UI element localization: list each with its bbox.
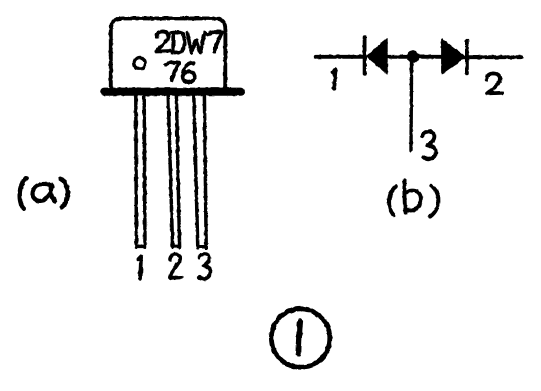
subfigure label (b): right paren xyxy=(430,186,438,217)
wire: terminal 1 to diode D1 cathode xyxy=(316,55,363,59)
pin label 3 xyxy=(199,254,210,279)
pin label 1 xyxy=(139,256,142,278)
pin 1 index dot on package xyxy=(134,58,145,69)
package marking text 2DW7: digit 2 xyxy=(156,31,169,51)
wire: junction down to terminal 3 xyxy=(409,57,413,150)
subfigure label (a): letter a xyxy=(33,184,56,202)
subfigure label (a): left paren xyxy=(20,178,27,209)
subfigure label (b): left paren xyxy=(389,186,396,215)
wire: diode D2 cathode to terminal 2 xyxy=(467,55,521,59)
package marking text 2DW7: letter D xyxy=(172,32,185,52)
diode D1 triangle (pointing left) xyxy=(367,39,388,74)
wire: diode D1 anode to junction xyxy=(386,55,410,59)
diode D2 triangle (pointing right) xyxy=(442,39,466,75)
figure number circle xyxy=(271,309,329,367)
diode D2 cathode bar xyxy=(465,41,469,74)
package mounting flange xyxy=(100,88,245,96)
figure number 1 xyxy=(298,321,300,353)
terminal label 2 xyxy=(487,73,502,93)
subfigure label (a): right paren xyxy=(60,179,68,208)
wire: junction to diode D2 anode xyxy=(416,55,443,59)
diode D1 cathode bar xyxy=(363,37,367,74)
package marking text 76: digit 7 xyxy=(166,62,180,80)
terminal label 1 xyxy=(333,69,336,88)
pin 2 lead xyxy=(168,96,179,248)
terminal label 3 xyxy=(423,131,436,159)
junction dot (common node, terminal 3) xyxy=(407,50,419,62)
transistor package U1 body outline xyxy=(111,18,226,90)
package marking text 76: digit 6 xyxy=(183,63,195,82)
pin label 2 xyxy=(170,254,181,278)
pin 3 lead xyxy=(194,96,206,248)
subfigure label (b): letter b xyxy=(404,181,421,213)
package marking text 2DW7: letter W xyxy=(187,32,204,52)
pin 1 lead xyxy=(136,96,145,248)
package marking text 2DW7: digit 7 xyxy=(208,32,222,52)
